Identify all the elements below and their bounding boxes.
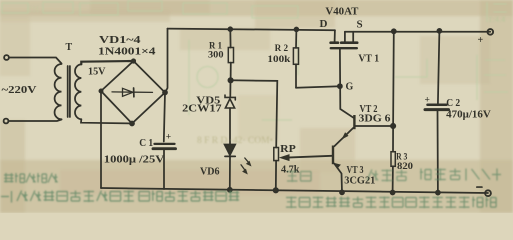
VT2 emitter to VT3 collector [334, 128, 353, 146]
svg-text:1000μ /25V: 1000μ /25V [104, 155, 165, 166]
wire bridge bottom vertex down [130, 122, 134, 126]
MOSFET VT1 drain stub [334, 30, 336, 41]
wire [9, 58, 62, 64]
bleed-through green text [1, 169, 501, 209]
wire secondary top to bridge [81, 61, 133, 64]
svg-text:111: 111 [28, 5, 39, 14]
potentiometer RP [274, 148, 279, 161]
MOSFET body stub [344, 32, 346, 42]
wire bridge left vertex down to ground rail [100, 91, 102, 188]
ground rail (bottom) [101, 188, 488, 193]
output terminal - [485, 190, 491, 196]
top rail right segment from source [345, 31, 490, 33]
minus polarity mark [477, 186, 482, 188]
VT3 emitter down to rail [334, 164, 342, 193]
svg-text:VT 1: VT 1 [358, 54, 379, 65]
svg-text:VD6: VD6 [200, 166, 220, 178]
transistor VT2 3DG6 [353, 115, 355, 129]
zener diode VD5 2CW17 [229, 80, 231, 96]
wire node to RP [231, 80, 278, 147]
bridge inner diode lead [112, 91, 153, 94]
capacitor C2 [437, 29, 441, 33]
resistor R2 [295, 28, 299, 32]
svg-text:R 2: R 2 [275, 44, 289, 54]
wire R2 to gate node G [296, 86, 340, 88]
wire bridge right vertex down to C1 [164, 93, 165, 142]
node R1/VD5/RP [228, 78, 232, 82]
svg-text:D: D [320, 18, 328, 30]
bridge rectifier VD1~4 diamond [101, 61, 165, 124]
svg-text:8 F R D ·42· COM•: 8 F R D ·42· COM• [197, 136, 273, 146]
svg-text:300: 300 [208, 51, 224, 61]
gate lead wire [340, 49, 354, 117]
transformer core [67, 66, 69, 117]
LED arrows [241, 158, 252, 175]
svg-text:R 3: R 3 [396, 153, 407, 163]
svg-text:T: T [66, 42, 73, 53]
svg-text:+: + [478, 35, 484, 46]
top rail left segment [168, 29, 335, 31]
input terminal top [4, 55, 9, 60]
wire secondary bottom to bridge [81, 119, 132, 123]
wire [8, 120, 61, 122]
wire bridge right vertex up to top rail [165, 29, 168, 93]
svg-text:C 1: C 1 [139, 138, 153, 149]
transformer T secondary [75, 64, 81, 119]
LED VD6 [225, 145, 236, 156]
svg-text:S: S [357, 19, 363, 31]
svg-text:VD1~4: VD1~4 [99, 35, 141, 46]
capacitor C1 [155, 143, 175, 145]
resistor R1 [228, 27, 232, 31]
svg-text:3CG21: 3CG21 [344, 176, 375, 187]
svg-text:4.7k: 4.7k [281, 165, 300, 176]
svg-text:470μ/16V: 470μ/16V [446, 110, 491, 121]
svg-text:G: G [346, 82, 354, 93]
svg-text:1N4001×4: 1N4001×4 [98, 47, 156, 58]
resistor R3 rail [392, 29, 396, 33]
svg-text:RP: RP [280, 144, 296, 155]
MOSFET source stub [352, 32, 354, 42]
input terminal bottom [4, 119, 9, 124]
bridge inner diode [123, 88, 134, 96]
svg-text:100k: 100k [267, 55, 291, 65]
RP wiper arrow to VT3 base [287, 156, 332, 158]
MOSFET gate plate [331, 47, 357, 49]
svg-text:3DG 6: 3DG 6 [359, 114, 391, 125]
node dots bridge [132, 59, 135, 62]
svg-text:V40AT: V40AT [325, 7, 358, 18]
faint bleed-through frame outlines [2, 1, 508, 120]
svg-text:15V: 15V [88, 67, 106, 78]
svg-text:VT 3: VT 3 [347, 165, 364, 176]
svg-text:+: + [425, 96, 430, 106]
VT2 base wire to R3 rail [356, 125, 394, 127]
svg-text:2CW17: 2CW17 [182, 104, 222, 115]
svg-text:C 2: C 2 [446, 98, 460, 109]
svg-text:~220V: ~220V [2, 85, 38, 96]
transformer T primary [55, 64, 62, 119]
svg-text:1:4.4: 1:4.4 [488, 14, 506, 24]
output terminal + [488, 29, 494, 35]
faint bleed latin row [28, 5, 506, 146]
transistor VT3 3CG21 [332, 146, 334, 165]
svg-text:820: 820 [397, 162, 413, 172]
svg-text:+: + [166, 133, 171, 143]
